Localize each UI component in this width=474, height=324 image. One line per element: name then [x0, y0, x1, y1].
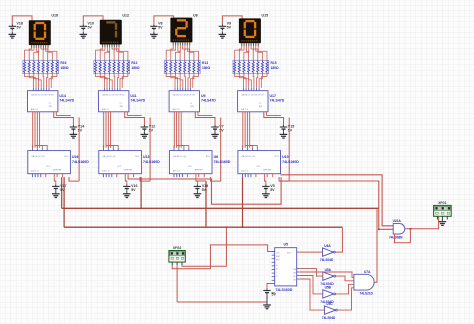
- svg-text:74LS160D: 74LS160D: [282, 160, 299, 164]
- svg-text:5V: 5V: [88, 25, 93, 29]
- svg-text:74LS47D: 74LS47D: [59, 99, 74, 103]
- svg-text:74LS160D: 74LS160D: [276, 288, 293, 292]
- svg-text:ENP ENT: ENP ENT: [263, 169, 272, 171]
- svg-text:RBI: RBI: [190, 106, 193, 108]
- svg-text:U12: U12: [122, 14, 129, 18]
- svg-text:OA OB OC OD OE OF OG: OA OB OC OD OE OF OG: [102, 94, 125, 97]
- svg-text:OA OB OC OD OE OF OG: OA OB OC OD OE OF OG: [241, 94, 264, 97]
- svg-text:U17: U17: [270, 94, 276, 98]
- svg-text:R15: R15: [271, 61, 277, 65]
- svg-text:5V: 5V: [272, 291, 276, 295]
- svg-text:RBI: RBI: [259, 106, 262, 108]
- svg-text:A B C D: A B C D: [241, 108, 249, 111]
- svg-text:74LS08N: 74LS08N: [389, 236, 403, 240]
- svg-text:180Ω: 180Ω: [131, 66, 140, 70]
- svg-text:74LS160D: 74LS160D: [143, 160, 160, 164]
- svg-text:A B C D: A B C D: [31, 170, 39, 173]
- svg-text:OA OB OC OD OE OF OG: OA OB OC OD OE OF OG: [31, 94, 54, 97]
- svg-text:U5: U5: [284, 243, 289, 247]
- svg-text:U22A: U22A: [393, 219, 402, 223]
- svg-text:74LS04D: 74LS04D: [320, 258, 334, 262]
- svg-text:U13: U13: [143, 155, 149, 159]
- svg-text:U10: U10: [282, 155, 288, 159]
- svg-text:ENP ENT: ENP ENT: [53, 169, 62, 171]
- svg-text:RBI: RBI: [49, 106, 52, 108]
- svg-text:A B C D: A B C D: [173, 108, 181, 111]
- svg-text:5V: 5V: [149, 129, 154, 133]
- svg-text:5V: 5V: [270, 188, 275, 192]
- svg-text:ENP ENT: ENP ENT: [124, 169, 133, 171]
- svg-text:5V: 5V: [288, 129, 293, 133]
- svg-text:U11: U11: [130, 94, 136, 98]
- svg-text:RCO: RCO: [135, 156, 140, 158]
- svg-text:A B C D: A B C D: [173, 170, 181, 173]
- svg-text:ENP ENT: ENP ENT: [195, 169, 204, 171]
- svg-text:RCO: RCO: [274, 156, 279, 158]
- svg-text:5V: 5V: [131, 188, 136, 192]
- svg-text:U5A: U5A: [325, 268, 332, 272]
- svg-text:74LS160D: 74LS160D: [214, 160, 231, 164]
- svg-text:74LS47D: 74LS47D: [201, 99, 216, 103]
- svg-text:U5B: U5B: [325, 286, 332, 290]
- svg-text:RCO: RCO: [287, 253, 292, 255]
- svg-text:R16: R16: [60, 61, 66, 65]
- svg-text:74LS21D: 74LS21D: [360, 292, 374, 296]
- svg-text:XFG1: XFG1: [438, 201, 447, 205]
- svg-text:U7A: U7A: [364, 270, 371, 274]
- svg-text:U9: U9: [201, 94, 206, 98]
- svg-text:74LS160D: 74LS160D: [72, 160, 89, 164]
- svg-text:U16: U16: [72, 155, 78, 159]
- svg-text:180Ω: 180Ω: [202, 66, 211, 70]
- svg-text:OA OB OC OD OE OF OG: OA OB OC OD OE OF OG: [173, 94, 196, 97]
- svg-text:U6A: U6A: [324, 244, 331, 248]
- svg-text:U5C: U5C: [326, 302, 333, 306]
- svg-text:180Ω: 180Ω: [60, 66, 69, 70]
- svg-text:5V: 5V: [219, 129, 224, 133]
- svg-text:5V: 5V: [202, 188, 207, 192]
- svg-text:QA QB QC QD: QA QB QC QD: [31, 155, 45, 158]
- svg-text:A B C D: A B C D: [241, 170, 249, 173]
- svg-text:180Ω: 180Ω: [271, 66, 280, 70]
- svg-text:QA QB QC QD: QA QB QC QD: [102, 155, 116, 158]
- svg-text:RCO: RCO: [206, 156, 211, 158]
- svg-text:74LS47D: 74LS47D: [270, 99, 285, 103]
- svg-text:A B C D: A B C D: [102, 108, 110, 111]
- svg-text:U8: U8: [193, 14, 198, 18]
- svg-text:U18: U18: [51, 14, 58, 18]
- svg-text:A B C D: A B C D: [102, 170, 110, 173]
- svg-text:5V: 5V: [227, 25, 232, 29]
- svg-text:U6: U6: [214, 155, 219, 159]
- svg-text:R12: R12: [131, 61, 137, 65]
- svg-text:RBI: RBI: [120, 106, 123, 108]
- svg-text:A B C D: A B C D: [31, 108, 39, 111]
- svg-text:5V: 5V: [60, 188, 65, 192]
- svg-text:U15: U15: [262, 14, 269, 18]
- svg-text:74LS04D: 74LS04D: [322, 316, 336, 320]
- svg-text:5V: 5V: [158, 25, 163, 29]
- svg-text:XFG2: XFG2: [173, 246, 182, 250]
- svg-text:QA QB QC QD: QA QB QC QD: [241, 155, 255, 158]
- svg-text:5V: 5V: [17, 25, 22, 29]
- svg-text:5V: 5V: [78, 129, 83, 133]
- svg-text:QA QB QC QD: QA QB QC QD: [173, 155, 187, 158]
- svg-text:74LS47D: 74LS47D: [130, 99, 145, 103]
- svg-text:R13: R13: [202, 61, 208, 65]
- svg-text:U14: U14: [59, 94, 65, 98]
- svg-text:RCO: RCO: [64, 156, 69, 158]
